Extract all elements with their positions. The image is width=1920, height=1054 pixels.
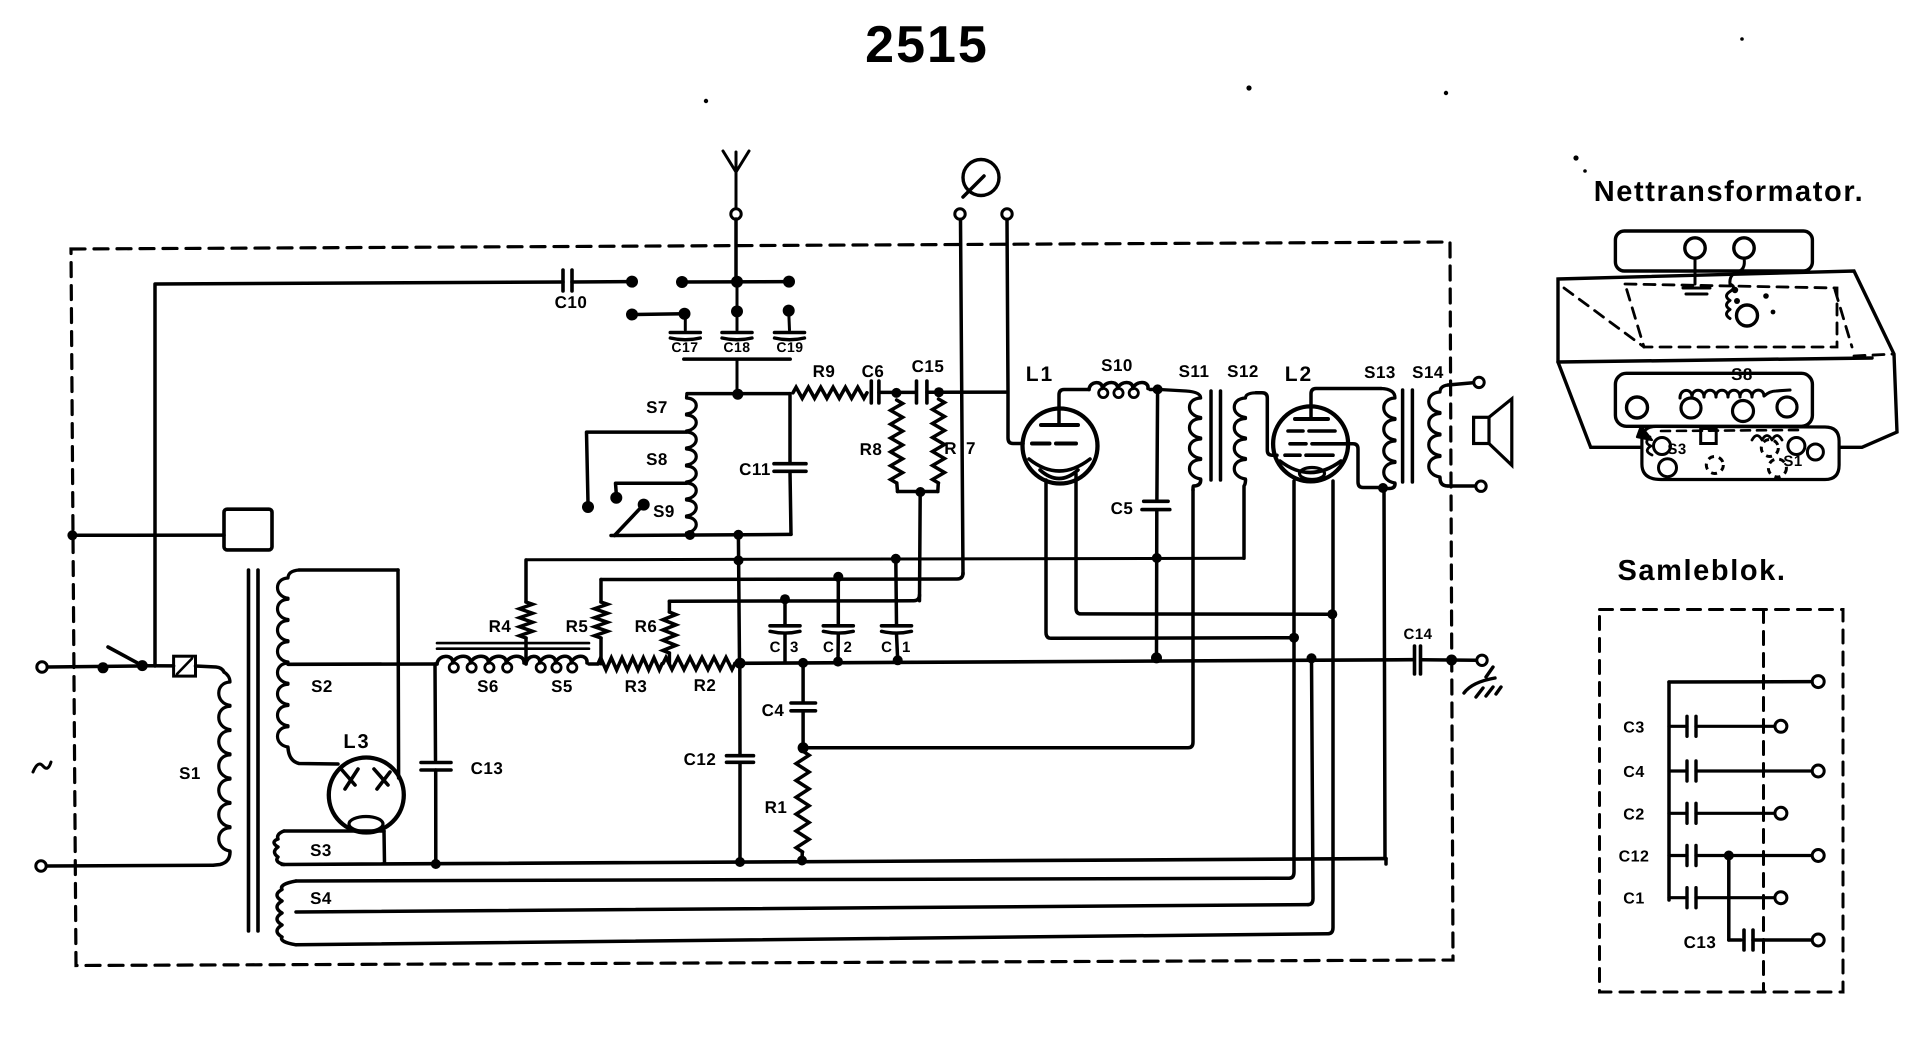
- trimmer capacitor C2: [823, 577, 853, 662]
- svg-text:S14: S14: [1412, 363, 1444, 382]
- wire: [1007, 220, 1023, 444]
- capacitor C15: [912, 357, 945, 403]
- wire: [1724, 851, 1734, 941]
- capacitor C13 (samleblok): [1684, 930, 1812, 952]
- wire heater: [1046, 480, 1299, 643]
- wire: [734, 219, 738, 277]
- svg-text:C: C: [881, 639, 892, 656]
- svg-text:C4: C4: [1623, 764, 1644, 781]
- svg-text:L1: L1: [1026, 363, 1055, 386]
- wire S8/S9 tap: [610, 483, 686, 504]
- resistor R9: [793, 362, 867, 398]
- pickup: [963, 160, 999, 198]
- ink speck: [1573, 37, 1743, 173]
- net transformer terminal board: [1642, 426, 1839, 479]
- wire: [961, 220, 964, 575]
- svg-text:R8: R8: [860, 440, 883, 459]
- svg-text:C14: C14: [1403, 626, 1432, 643]
- svg-text:S9: S9: [653, 502, 675, 521]
- wire L2 anode: [1346, 444, 1388, 859]
- net transformer lower bobbin: [1615, 373, 1812, 426]
- tube L1: [1023, 363, 1098, 484]
- capacitor C2 (samleblok): [1623, 803, 1787, 823]
- AC symbol: [33, 762, 51, 772]
- title 2515: [865, 16, 989, 74]
- terminal: [1477, 655, 1487, 665]
- wire L2 top cap: [1311, 389, 1381, 418]
- wire: [572, 280, 627, 284]
- svg-text:C10: C10: [555, 293, 588, 312]
- svg-text:S7: S7: [646, 398, 668, 417]
- node: [98, 662, 109, 673]
- svg-text:2: 2: [844, 639, 853, 656]
- coil S11: [1158, 362, 1210, 490]
- trimmer capacitor C17: [670, 314, 700, 355]
- wire detector line: [803, 490, 1193, 748]
- svg-text:S12: S12: [1227, 362, 1259, 381]
- coil S12: [1227, 362, 1259, 558]
- wire: [927, 387, 1006, 397]
- capacitor C12: [684, 663, 754, 862]
- wire: [589, 662, 598, 666]
- svg-text:S6: S6: [477, 677, 499, 696]
- resistor R6: [635, 601, 676, 663]
- coil S14: [1412, 363, 1448, 486]
- svg-text:S2: S2: [311, 677, 333, 696]
- svg-text:C12: C12: [1619, 849, 1650, 866]
- svg-text:S8: S8: [646, 450, 668, 469]
- resistor R5: [566, 580, 608, 664]
- net transformer square lug: [1701, 429, 1717, 444]
- iron core bar: [437, 643, 589, 649]
- svg-text:C6: C6: [862, 362, 885, 381]
- capacitor C11: [739, 394, 806, 535]
- svg-text:R1: R1: [765, 798, 788, 817]
- svg-text:L3: L3: [343, 731, 370, 753]
- wire: [687, 392, 790, 396]
- capacitor C13: [421, 664, 503, 864]
- svg-text:Nettransformator.: Nettransformator.: [1594, 176, 1865, 208]
- resistor R1: [765, 751, 809, 861]
- svg-text:S3: S3: [310, 841, 332, 860]
- svg-text:C13: C13: [1684, 933, 1717, 952]
- switch S9 blade: [615, 499, 650, 536]
- wire bus C: [601, 572, 963, 582]
- trimmer capacitor C19: [775, 305, 805, 355]
- transformer core: [249, 570, 259, 931]
- terminal: [1474, 377, 1484, 387]
- winding S8 coil: [1680, 390, 1797, 422]
- node grid top junction: [732, 389, 743, 400]
- capacitor C5: [1111, 389, 1170, 656]
- svg-text:S13: S13: [1364, 363, 1396, 382]
- terminal: [1812, 934, 1824, 946]
- svg-text:R5: R5: [566, 617, 589, 636]
- IF transformer core: [1211, 391, 1221, 480]
- label S9: [653, 502, 675, 521]
- svg-text:C: C: [770, 639, 781, 656]
- winding S4: [277, 881, 332, 945]
- ink speck: [704, 99, 708, 103]
- capacitor C14: [1403, 626, 1432, 674]
- wire ground bus: [282, 856, 1386, 870]
- svg-text:C13: C13: [471, 759, 504, 778]
- capacitor C12 (samleblok): [1619, 846, 1825, 866]
- node C18 top: [731, 305, 743, 317]
- terminal: [955, 209, 965, 219]
- wire: [879, 388, 916, 398]
- output transformer core: [1403, 390, 1413, 482]
- samleblok dashed box: [1600, 610, 1844, 993]
- node antenna bar: [676, 276, 795, 307]
- suppressor block: [224, 509, 272, 550]
- node switch contact: [626, 276, 638, 288]
- rectifier lamp L3: [329, 731, 404, 833]
- svg-text:C1: C1: [1623, 891, 1644, 908]
- coil S6: [437, 656, 524, 696]
- ink speck: [1444, 91, 1448, 95]
- net transformer terminal: [1627, 397, 1648, 418]
- wire: [196, 666, 225, 672]
- wire bus D: [669, 594, 919, 604]
- wire L2 left leg: [1289, 481, 1294, 878]
- label Nettransformator: [1594, 176, 1865, 208]
- svg-text:R4: R4: [489, 617, 512, 636]
- wire trimmer bus: [684, 359, 790, 390]
- wire main line: [735, 652, 1414, 668]
- svg-text:C5: C5: [1111, 499, 1134, 518]
- svg-text:S10: S10: [1101, 356, 1133, 375]
- fuse: [174, 656, 196, 676]
- svg-text:S8: S8: [1731, 365, 1753, 384]
- net transformer lugs: [1647, 436, 1824, 478]
- coil S7: [646, 394, 696, 534]
- net transformer top bobbin: [1615, 231, 1812, 271]
- capacitor C4 (samleblok): [1623, 761, 1824, 781]
- terminal: [1812, 676, 1824, 688]
- label S8: [1731, 365, 1753, 384]
- coil S10: [1089, 356, 1148, 398]
- wire: [1448, 484, 1475, 488]
- wire S4 top: [296, 878, 1289, 881]
- net transformer small terminal: [1737, 293, 1776, 326]
- svg-text:C11: C11: [739, 460, 771, 479]
- coil S5: [526, 656, 587, 696]
- terminal: [37, 662, 47, 672]
- capacitor C10: [555, 270, 588, 312]
- svg-text:R3: R3: [625, 677, 648, 696]
- wire: [611, 530, 791, 540]
- wire bus B: [526, 553, 1244, 565]
- terminal: [1476, 481, 1486, 491]
- svg-text:S5: S5: [551, 677, 573, 696]
- resistor R7: [933, 399, 976, 492]
- net transformer terminal: [1734, 238, 1754, 258]
- svg-text:Samleblok.: Samleblok.: [1617, 555, 1786, 587]
- coil S13: [1364, 363, 1396, 489]
- svg-text:2515: 2515: [865, 16, 989, 74]
- wire main line: [288, 662, 437, 666]
- resistor R8: [860, 400, 903, 492]
- ground: [1464, 667, 1501, 697]
- trimmer capacitor C1: [881, 559, 911, 661]
- svg-text:C2: C2: [1623, 806, 1644, 823]
- svg-text:L2: L2: [1285, 363, 1314, 386]
- net transformer lead: [1683, 258, 1744, 319]
- wire: [155, 282, 563, 666]
- svg-text:R: R: [944, 439, 957, 458]
- speaker: [1474, 399, 1512, 466]
- capacitor C6: [862, 362, 885, 403]
- resistor R2: [663, 658, 735, 696]
- wire: [632, 312, 684, 316]
- svg-text:S4: S4: [310, 889, 332, 908]
- samleblok bus: [1667, 682, 1671, 900]
- net transformer dashed window: [1564, 284, 1894, 356]
- svg-text:R2: R2: [694, 676, 717, 695]
- svg-text:C17: C17: [671, 339, 698, 355]
- wire heater: [1076, 474, 1337, 619]
- net transformer terminal: [1685, 238, 1705, 258]
- terminal: [1002, 209, 1012, 219]
- svg-text:C12: C12: [684, 750, 717, 769]
- trimmer capacitor C18: [722, 311, 752, 355]
- wire S4 mid: [296, 905, 1308, 912]
- lug arrow: [1637, 426, 1652, 440]
- svg-text:C3: C3: [1623, 719, 1644, 736]
- wire S7/S8 tap: [582, 432, 687, 513]
- wire: [898, 487, 938, 601]
- svg-text:R9: R9: [813, 362, 836, 381]
- svg-text:7: 7: [966, 439, 976, 458]
- wire: [47, 864, 213, 868]
- svg-text:C4: C4: [762, 701, 785, 720]
- label S3: [1667, 441, 1686, 458]
- wire S4 bottom: [296, 934, 1328, 945]
- label S1: [1783, 453, 1802, 470]
- wire: [738, 535, 739, 663]
- wire S2 right: [396, 570, 400, 778]
- svg-text:C: C: [823, 639, 834, 656]
- node switch contact: [626, 309, 638, 321]
- winding S2: [278, 570, 399, 764]
- terminal: [36, 861, 46, 871]
- label S8: [646, 450, 668, 469]
- net transformer body: [1558, 271, 1897, 447]
- node: [1150, 384, 1163, 394]
- wire: [1448, 383, 1473, 385]
- svg-text:C18: C18: [723, 339, 750, 355]
- trimmer capacitor C3: [770, 599, 800, 662]
- capacitor C4: [762, 663, 816, 753]
- node C17 top: [679, 308, 691, 320]
- tube L2: [1273, 363, 1348, 481]
- antenna: [723, 151, 749, 219]
- wire: [1384, 859, 1388, 864]
- wire L2 right leg: [1328, 481, 1333, 934]
- resistor R4: [489, 560, 533, 664]
- wire S12 to L2 grid: [1256, 393, 1277, 455]
- svg-text:1: 1: [902, 639, 911, 656]
- chassis dashed border: [71, 242, 1453, 966]
- wire S4 mid feed: [1307, 653, 1317, 904]
- transformer primary S1: [179, 672, 230, 865]
- wire: [48, 666, 139, 667]
- ink speck: [1246, 85, 1251, 90]
- label Samleblok: [1617, 555, 1786, 587]
- resistor R3: [598, 658, 662, 696]
- switch S15 blade: [108, 647, 148, 671]
- svg-text:S11: S11: [1179, 362, 1210, 381]
- svg-text:C15: C15: [912, 357, 945, 376]
- wire: [142, 664, 173, 668]
- capacitor C3 (samleblok): [1623, 716, 1787, 736]
- wire L1 top cap: [1059, 390, 1089, 426]
- svg-text:R6: R6: [635, 617, 658, 636]
- winding S3: [274, 831, 385, 865]
- wire: [1421, 655, 1477, 666]
- wire: [67, 530, 224, 540]
- svg-text:3: 3: [790, 639, 799, 656]
- wire: [1669, 680, 1812, 684]
- svg-text:S1: S1: [179, 764, 201, 783]
- capacitor C1 (samleblok): [1623, 888, 1787, 908]
- svg-text:C19: C19: [776, 339, 803, 355]
